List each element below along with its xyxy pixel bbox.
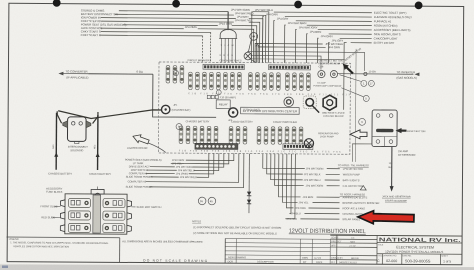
- bottom left blue scanner mark: [2, 266, 8, 269]
- circled terminals 1 17 5: [339, 75, 374, 126]
- title block: [330, 235, 462, 265]
- node labels: stereo, battery disconnect, ign power etc: [81, 9, 127, 38]
- square stud terminal: [303, 96, 319, 113]
- chassis battery lead: [48, 113, 73, 176]
- circled 55 45: [198, 197, 215, 205]
- title block small cells text: [331, 236, 359, 264]
- pin labels under dome: [220, 44, 234, 57]
- terminal strip A (top left): [203, 64, 245, 69]
- relay box: [216, 100, 230, 109]
- wires: right stack to distribution block: [251, 12, 372, 110]
- jack and generator start label: [382, 195, 411, 202]
- feed wire to gbs area: [250, 56, 321, 70]
- header labels above fuse rows: [188, 59, 287, 63]
- F10 30amp fuse row: [207, 95, 236, 99]
- to inverter wire: [337, 69, 419, 80]
- battery group labels: [186, 119, 298, 124]
- reset button black arrow (rotated): [341, 62, 355, 76]
- breaker output wire down: [388, 147, 394, 192]
- indicator lamp circle: [248, 32, 257, 51]
- warning triangle 2: [360, 186, 366, 190]
- 12V power distribution center block outline: [158, 62, 350, 154]
- accessory fuse block label: [46, 186, 63, 193]
- drops to hold tank harness rows: [263, 154, 340, 186]
- GBS reset button note: [318, 59, 342, 68]
- binder pins: [53, 0, 61, 7]
- wire to panel: [88, 73, 152, 75]
- bottom fuse row switched group: [257, 127, 303, 145]
- dimensions box: [122, 238, 225, 263]
- red highlight arrow pointing at solar panel: [358, 210, 414, 224]
- lamp with X: [244, 52, 257, 62]
- notes block: [192, 219, 281, 235]
- bottom row of title block: [378, 254, 449, 257]
- 150 amp label: [398, 150, 416, 157]
- bottom scanner strip: [0, 265, 474, 270]
- accessory block wiring labels: [40, 204, 161, 220]
- top fuse row group 2: [249, 73, 281, 91]
- circled 4: [173, 70, 178, 75]
- wire labels right stack: [255, 8, 344, 49]
- GBD reset lever note: [322, 112, 345, 118]
- 12V power distribution center label box: [241, 107, 300, 114]
- terminal strip bottom with circles: [195, 143, 238, 149]
- terminal strip B (top right): [268, 65, 310, 70]
- X stud terminal: [304, 139, 313, 148]
- circuit breaker column left: [166, 66, 184, 84]
- generator and jack pump note: [318, 132, 339, 138]
- wires from lower-left labels up to block: [146, 153, 244, 188]
- two reset button circles: [318, 70, 338, 77]
- roof harness rows: [286, 195, 379, 222]
- labels power seat, lp tank etc: [125, 158, 162, 189]
- bottom fuse row chassis group: [179, 126, 218, 144]
- bus wire above block: [251, 58, 345, 61]
- coach battery lead: [89, 115, 112, 176]
- lighted decor hollow arrow: [127, 132, 166, 152]
- drops to roof harness rows: [278, 154, 339, 219]
- JP2 connector (coach bat): [228, 107, 260, 122]
- DC amp component note: [313, 82, 342, 88]
- side tabs: [60, 200, 131, 232]
- circled 6: [176, 124, 182, 130]
- ring stud terminal: [284, 97, 294, 107]
- long wire to relay area: [354, 49, 357, 162]
- feed wire to inverter junction: [247, 52, 365, 71]
- accessory fuse block body: [60, 189, 131, 234]
- hold tank rows: [304, 166, 363, 188]
- diode branch: [247, 154, 252, 214]
- wire names lower left: [172, 158, 198, 179]
- reset button arrow at breaker: [396, 128, 426, 133]
- load labels: electric toilet, furnace etc: [374, 11, 413, 45]
- scan noise overlay: [0, 0, 1, 1]
- left cells: [68, 198, 125, 232]
- legend box: [6, 237, 119, 262]
- circled 7: [216, 90, 221, 95]
- main battery cable runs: [57, 109, 161, 124]
- to converter arrow and label: [58, 69, 216, 117]
- top fuse row group 3: [286, 73, 311, 91]
- 150 amp circuit breaker: [372, 110, 397, 147]
- battery disconnect solenoid (dome can): [219, 11, 237, 62]
- hex stud terminal: [323, 95, 336, 110]
- warning triangle: [256, 44, 259, 46]
- revision table: [225, 239, 330, 264]
- wires: left stack to distribution block: [101, 11, 269, 63]
- interconnect solenoid: [63, 117, 91, 144]
- terminal strip bottom right: [283, 144, 313, 150]
- JP1 connector (chassis bat): [161, 104, 190, 114]
- bottom fuse row coach group: [229, 126, 247, 144]
- wire from top tab: [97, 187, 99, 190]
- wire labels left stack: [185, 7, 254, 29]
- top fuse row group 1: [189, 72, 242, 90]
- hollow block arrow right: [350, 130, 367, 139]
